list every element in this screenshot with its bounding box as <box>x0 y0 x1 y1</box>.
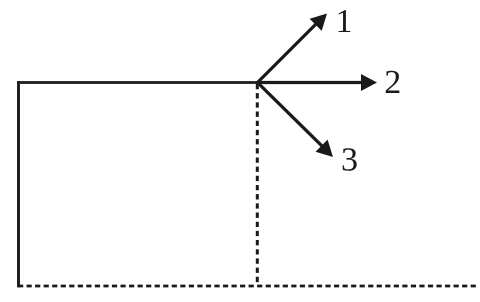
svg-text:1: 1 <box>336 3 353 40</box>
arrow 1 head <box>310 14 327 31</box>
node: junction of arrows <box>256 81 259 84</box>
arrow 3 shaft (down-right 45 degrees) <box>258 83 324 148</box>
arrow 2 shaft (horizontal right) <box>258 81 364 84</box>
wire: middle vertical dashed line <box>256 84 259 284</box>
wire: bottom horizontal dashed line <box>18 285 476 288</box>
arrow 1 shaft (up-right 45 degrees) <box>258 23 318 83</box>
svg-text:3: 3 <box>341 141 358 178</box>
wire: left vertical solid line <box>17 81 20 287</box>
arrow 3 head <box>316 140 334 157</box>
wire: top horizontal solid line <box>17 81 258 84</box>
svg-text:2: 2 <box>384 64 401 101</box>
arrow 2 head <box>361 74 377 91</box>
